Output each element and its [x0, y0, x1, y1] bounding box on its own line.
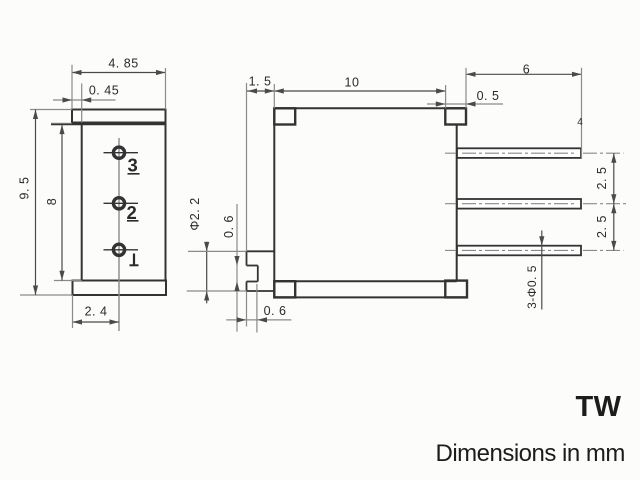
svg-text:1. 5: 1. 5	[249, 75, 272, 89]
svg-text:0. 5: 0. 5	[477, 89, 500, 103]
dim 9.5 line	[33, 110, 38, 296]
dim 2.5 line	[611, 153, 616, 250]
svg-text:4. 85: 4. 85	[108, 57, 138, 71]
svg-text:Φ2. 2: Φ2. 2	[188, 197, 202, 230]
dim 10 text	[345, 76, 360, 90]
lead pin 2 (side view) with center line	[445, 199, 628, 209]
underline pin 2 label	[127, 220, 139, 222]
dim 6 left extension	[465, 68, 467, 109]
side view body top edge	[274, 107, 466, 109]
dim 9.5 text	[18, 177, 32, 200]
adjustment screw protrusion with slot (side view)	[247, 251, 275, 291]
svg-text:2: 2	[126, 202, 136, 223]
dim 4.85 text	[108, 57, 138, 71]
screw face extension line	[246, 83, 248, 251]
title TW	[575, 391, 621, 423]
left view top flange	[72, 110, 166, 123]
svg-text:4: 4	[577, 117, 583, 128]
body left edge extension line	[273, 84, 275, 108]
terminal hole 2 (left view)	[104, 198, 139, 209]
standoff tab bottom-right	[445, 281, 467, 298]
dim 6 text	[523, 63, 530, 77]
dim 0.6 slot depth right extension	[256, 284, 258, 333]
svg-text:0. 45: 0. 45	[89, 84, 119, 98]
svg-text:Dimensions in mm: Dimensions in mm	[436, 440, 625, 467]
dim 0.6 slot depth line	[226, 317, 291, 322]
svg-text:2. 5: 2. 5	[595, 215, 609, 238]
side view bottom plate line	[274, 296, 467, 298]
dim dia2.2 text	[188, 197, 202, 230]
dim 2.4 line	[73, 319, 120, 324]
dim dia2.2 top extension	[188, 250, 247, 252]
left view body bottom / 8-dim bottom extension	[54, 280, 82, 282]
svg-text:0. 6: 0. 6	[264, 304, 287, 318]
terminal hole 1 (left view)	[104, 244, 139, 255]
left view bottom flange	[73, 281, 167, 296]
dim 0.5 line	[427, 101, 503, 106]
dim 2.4 left extension	[72, 295, 74, 328]
dim 0.5 text	[477, 89, 500, 103]
svg-text:2. 5: 2. 5	[595, 167, 609, 190]
dim 0.6 slot width text	[222, 215, 236, 238]
dim dia2.2 bottom extension	[187, 290, 247, 292]
standoff tab top-right	[445, 108, 466, 124]
left view body outline	[82, 123, 166, 281]
dim 0.45 text	[89, 84, 119, 98]
pin number label 3	[127, 155, 137, 176]
pin number label 2	[126, 202, 136, 223]
underline pin 3 label	[128, 173, 140, 175]
standoff tab bottom-left	[274, 281, 295, 297]
dim 6 line	[466, 72, 582, 77]
lead pin 3 (side view) with center line	[445, 246, 624, 256]
svg-text:10: 10	[345, 76, 360, 90]
svg-text:TW: TW	[575, 391, 621, 423]
label 3-dia0.5 text	[525, 265, 539, 309]
left view body top line / 8-dim top extension	[51, 122, 166, 125]
left view flange bottom extension for 9.5	[20, 294, 73, 296]
dim dia2.2 line	[204, 242, 209, 304]
side view body left edge	[273, 107, 275, 297]
standoff tab top-left	[274, 108, 295, 124]
caption Dimensions in mm	[436, 440, 625, 467]
left view flange top extension for 9.5	[30, 109, 72, 111]
dim 10 right extension	[445, 85, 447, 108]
label 3-dia0.5 leader	[539, 231, 544, 310]
dim 0.6 slot width line	[234, 204, 239, 332]
svg-text:2. 4: 2. 4	[85, 305, 108, 319]
dim 2.5 upper text	[595, 167, 609, 190]
side view body bottom edge	[274, 280, 456, 282]
dim 0.6 slot depth left extension	[246, 292, 248, 327]
dim 8 line	[59, 124, 64, 280]
dim 8 text	[45, 198, 59, 205]
dim 4.85 right extension	[165, 68, 167, 110]
dim 2.5 lower text	[595, 215, 609, 238]
svg-text:0. 6: 0. 6	[222, 215, 236, 238]
terminal hole 3 (left view)	[104, 147, 139, 158]
dim 0.45 line	[53, 97, 116, 102]
svg-text:3-Φ0. 5: 3-Φ0. 5	[525, 265, 539, 309]
dim 0.45 right extension	[81, 83, 83, 122]
dim 1.5 text	[249, 75, 272, 89]
dim 4.85 left extension	[71, 65, 73, 110]
dim 6 right extension	[581, 68, 583, 159]
svg-text:3: 3	[127, 155, 137, 176]
pin center line (left view)	[118, 138, 120, 331]
dim 0.6 slot depth text	[264, 304, 287, 318]
side view body right edge	[456, 125, 458, 281]
svg-text:9. 5: 9. 5	[18, 177, 32, 200]
dim 1.5/10 line	[247, 88, 446, 93]
dim 4.85 line	[72, 70, 166, 75]
dim 2.4 text	[85, 305, 108, 319]
pin number label 1	[130, 254, 139, 266]
numeral 4 artifact on extension	[577, 117, 583, 128]
svg-text:8: 8	[45, 198, 59, 205]
lead pin 1 (side view) with center line	[445, 148, 624, 158]
